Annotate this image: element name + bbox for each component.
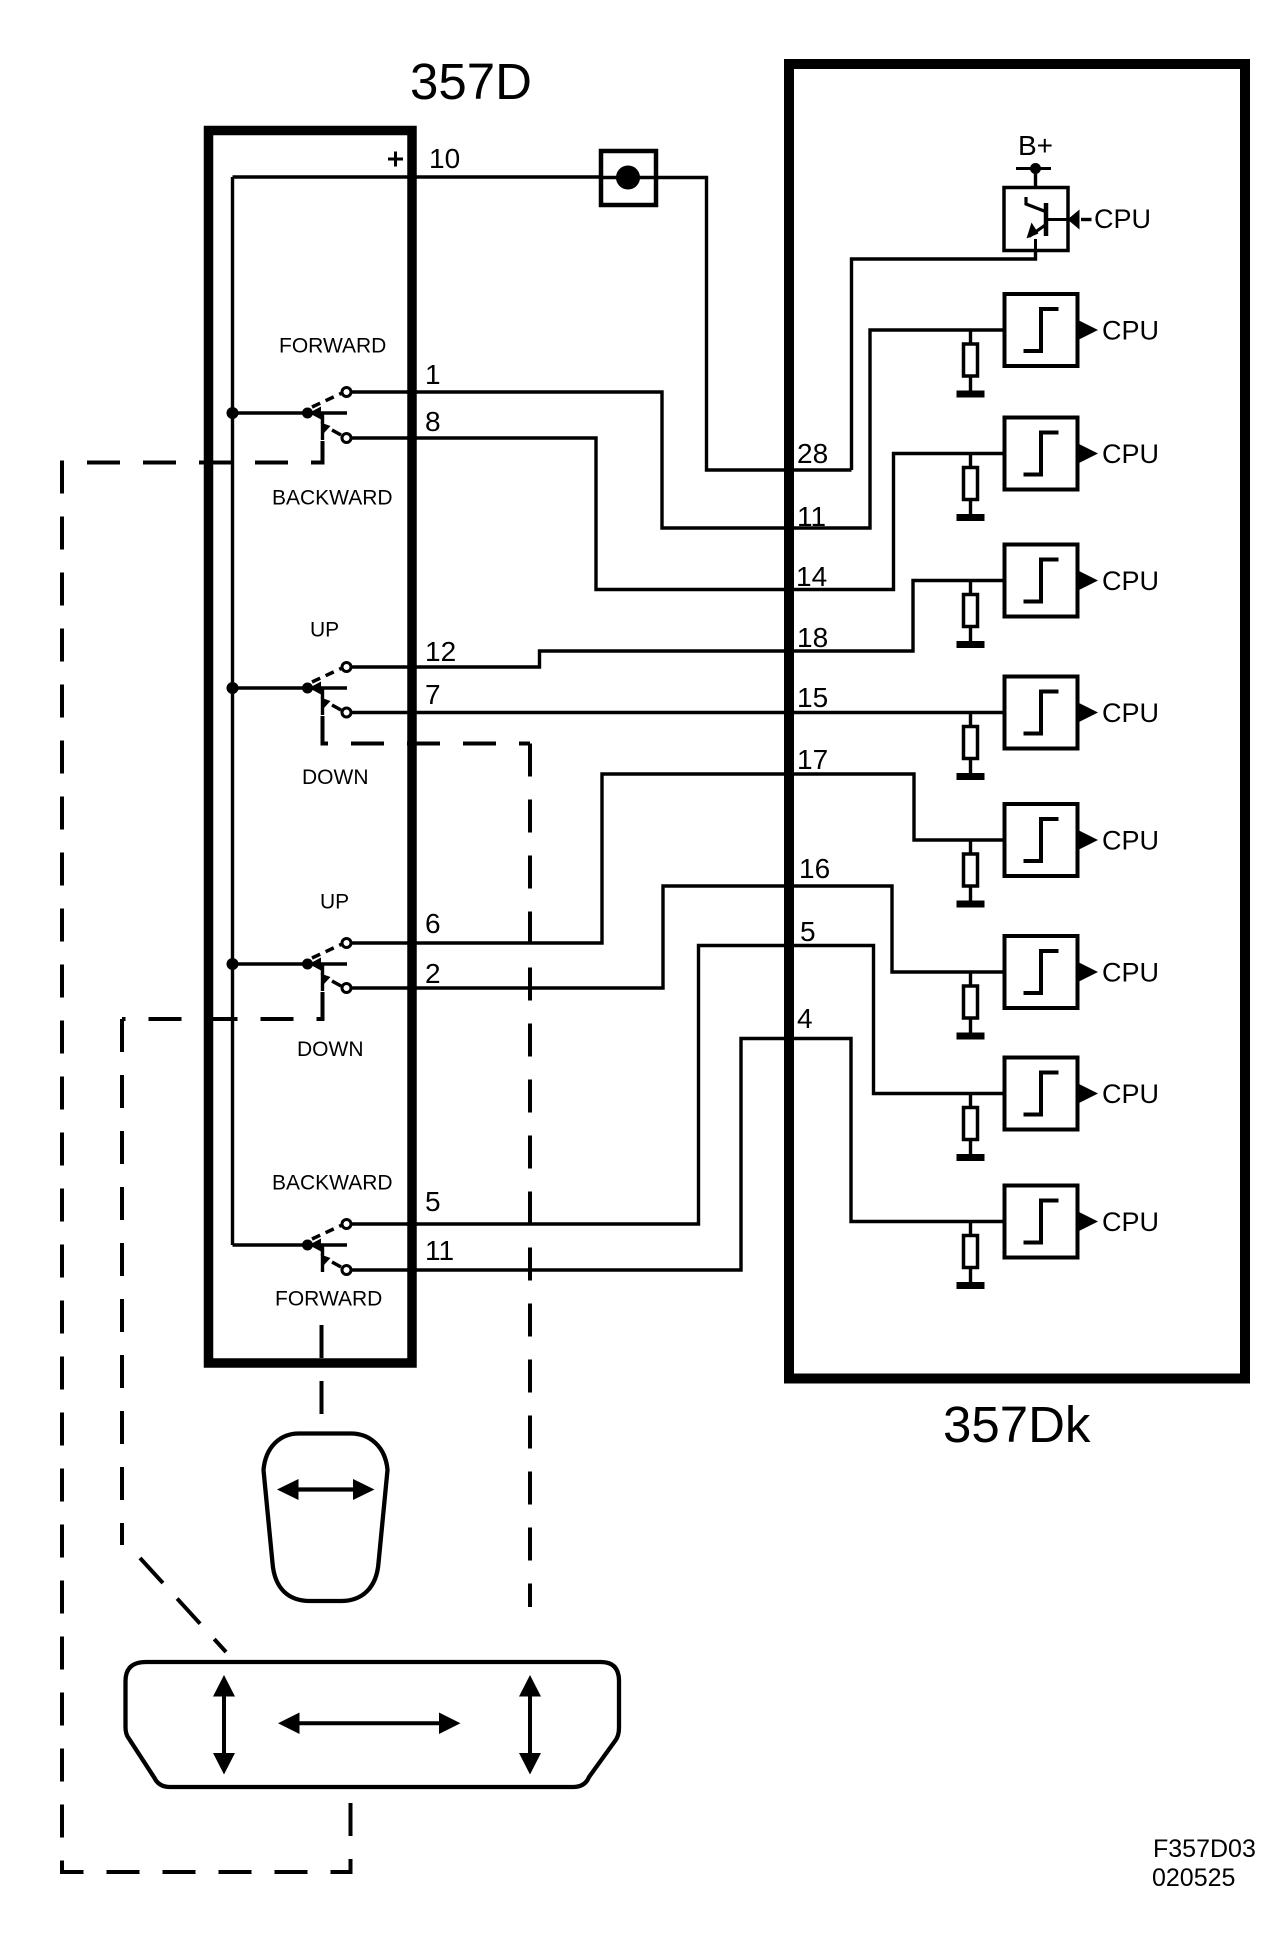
linkage switch S3 to seat front lift (dashed) <box>122 992 323 1019</box>
svg-text:CPU: CPU <box>1102 1207 1159 1237</box>
schmitt trigger U5 box <box>1005 804 1078 876</box>
switch S3 lower contact <box>342 984 351 993</box>
svg-text:17: 17 <box>797 744 828 775</box>
switch S4 lower contact <box>342 1266 351 1275</box>
CPU output arrow U4 <box>1079 703 1098 722</box>
wire switch S2 pole feed <box>233 686 308 689</box>
switch S2 lower contact <box>342 708 351 717</box>
CPU output arrow U6 <box>1079 963 1098 982</box>
svg-text:CPU: CPU <box>1102 826 1159 856</box>
schmitt trigger U4 box <box>1005 677 1078 749</box>
switch S1 upper throw (dashed) <box>312 394 341 408</box>
svg-text:10: 10 <box>429 143 460 174</box>
linkage switch S4 to backrest knob (dashed) <box>320 1325 324 1416</box>
switch S1 pole <box>302 408 313 419</box>
CPU input arrow to transistor base <box>1068 210 1092 230</box>
svg-text:FORWARD: FORWARD <box>279 335 386 358</box>
switch S3 pole <box>302 959 313 970</box>
ground bar R8 <box>957 1282 985 1289</box>
switch S2 upper contact <box>342 663 351 672</box>
svg-text:11: 11 <box>425 1235 454 1266</box>
svg-text:FORWARD: FORWARD <box>275 1288 382 1311</box>
CPU output arrow U1 <box>1079 321 1098 340</box>
wire switch S4 pole feed <box>233 1243 308 1246</box>
switch S4 lower throw (dashed) <box>321 1255 342 1268</box>
ground bar R6 <box>957 1033 985 1040</box>
wire pin 5 to pin 5 to schmitt U7 <box>351 946 1005 1225</box>
schmitt trigger U2 box <box>1005 418 1078 490</box>
seat rear lift up-down arrow <box>519 1675 541 1775</box>
svg-text:CPU: CPU <box>1094 204 1151 234</box>
wire pin 1 to pin 11 to schmitt U1 <box>351 330 1005 528</box>
svg-text:4: 4 <box>797 1003 813 1034</box>
connector splice (square with dot) <box>601 151 656 205</box>
resistor R3 (pull-down) <box>964 581 978 642</box>
node switch S3 junction <box>227 958 239 970</box>
svg-text:18: 18 <box>797 622 828 653</box>
svg-text:5: 5 <box>800 916 816 947</box>
svg-text:DOWN: DOWN <box>297 1038 364 1061</box>
wire pin 7 to pin 15 to schmitt U4 <box>351 711 1005 714</box>
CPU output arrow U3 <box>1079 571 1098 590</box>
wire pin 6 to pin 17 to schmitt U5 <box>351 774 1005 943</box>
svg-text:F357D03: F357D03 <box>1153 1835 1256 1863</box>
switch S4 upper throw (dashed) <box>312 1226 341 1240</box>
schmitt trigger U3 step symbol <box>1024 560 1059 602</box>
wire pin 11 to pin 4 to schmitt U8 <box>351 1039 1005 1271</box>
svg-text:CPU: CPU <box>1102 958 1159 988</box>
svg-text:DOWN: DOWN <box>302 766 369 789</box>
CPU output arrow U8 <box>1079 1212 1098 1231</box>
wire pin 12 to pin 18 to schmitt U3 <box>351 581 1005 668</box>
ground bar R3 <box>957 641 985 648</box>
schmitt trigger U2 step symbol <box>1024 433 1059 475</box>
switch S4 upper contact <box>342 1220 351 1229</box>
wire internal supply bus in 357D <box>231 177 234 1245</box>
seat slide left-right arrow <box>278 1713 461 1735</box>
svg-text:5: 5 <box>425 1186 441 1217</box>
svg-text:B+: B+ <box>1018 130 1053 161</box>
wire pin 10 to connector <box>233 175 602 178</box>
switch S2 lower throw (dashed) <box>321 698 342 711</box>
resistor R2 (pull-down) <box>964 454 978 515</box>
schmitt trigger U1 step symbol <box>1024 309 1059 351</box>
wire pin 8 to pin 14 to schmitt U2 <box>351 438 1005 590</box>
component box 357D (switch unit) <box>209 131 413 1364</box>
resistor R4 (pull-down) <box>964 713 978 774</box>
svg-text:UP: UP <box>310 619 339 642</box>
wire pin 28 to transistor emitter <box>852 251 1036 471</box>
svg-text:357Dk: 357Dk <box>943 1396 1091 1453</box>
wire B+ to transistor collector <box>1034 169 1037 188</box>
schmitt trigger U7 step symbol <box>1024 1073 1059 1115</box>
component box 357Dk (control unit) <box>789 64 1245 1379</box>
svg-text:2: 2 <box>425 958 441 989</box>
resistor R5 (pull-down) <box>964 840 978 901</box>
schmitt trigger U7 box <box>1005 1058 1078 1130</box>
schmitt trigger U8 box <box>1005 1186 1078 1258</box>
svg-text:12: 12 <box>425 636 456 667</box>
wire switch S3 pole feed <box>233 962 308 965</box>
switch S4 lever tick <box>321 1245 324 1272</box>
CPU output arrow U7 <box>1079 1084 1098 1103</box>
seat adjuster outline <box>126 1662 620 1787</box>
switch S1 lever tick <box>321 413 324 440</box>
schmitt trigger U8 step symbol <box>1024 1201 1059 1243</box>
svg-text:CPU: CPU <box>1102 316 1159 346</box>
svg-text:BACKWARD: BACKWARD <box>272 1172 393 1195</box>
plus polarity mark inside 357D <box>388 152 403 167</box>
B+ terminal <box>1016 163 1051 174</box>
wire connector to pin 28 of 357Dk <box>656 178 852 471</box>
svg-text:CPU: CPU <box>1102 1079 1159 1109</box>
svg-text:7: 7 <box>425 679 441 710</box>
backrest knob left-right arrow <box>277 1479 375 1500</box>
wire pin 2 to pin 16 to schmitt U6 <box>351 886 1005 988</box>
transistor Q1 (output driver) <box>1004 188 1068 251</box>
schmitt trigger U6 box <box>1005 936 1078 1008</box>
svg-text:CPU: CPU <box>1102 566 1159 596</box>
svg-text:UP: UP <box>320 891 349 914</box>
ground bar R2 <box>957 514 985 521</box>
switch S3 upper contact <box>342 939 351 948</box>
svg-text:28: 28 <box>797 438 828 469</box>
schmitt trigger U4 step symbol <box>1024 692 1059 734</box>
schmitt trigger U1 box <box>1005 294 1078 366</box>
svg-text:CPU: CPU <box>1102 698 1159 728</box>
resistor R1 (pull-down) <box>964 330 978 391</box>
switch S4 pole <box>302 1240 313 1251</box>
switch S4 actuator arrow <box>309 1239 347 1252</box>
ground bar R4 <box>957 773 985 780</box>
linkage switch S2 to seat rear lift (dashed) <box>323 716 531 744</box>
resistor R7 (pull-down) <box>964 1094 978 1155</box>
switch S2 actuator arrow <box>309 682 347 695</box>
svg-text:16: 16 <box>799 853 830 884</box>
backrest adjuster knob outline <box>264 1434 388 1602</box>
svg-text:8: 8 <box>425 406 441 437</box>
svg-text:020525: 020525 <box>1152 1864 1235 1892</box>
switch S2 lever tick <box>321 688 324 715</box>
seat front lift up-down arrow <box>213 1675 235 1775</box>
ground bar R1 <box>957 391 985 398</box>
node switch S2 junction <box>227 682 239 694</box>
switch S3 actuator arrow <box>309 958 347 971</box>
CPU output arrow U2 <box>1079 444 1098 463</box>
svg-text:6: 6 <box>425 908 441 939</box>
schmitt trigger U3 box <box>1005 545 1078 617</box>
svg-text:CPU: CPU <box>1102 439 1159 469</box>
schmitt trigger U5 step symbol <box>1024 819 1059 861</box>
linkage switch S1 to seat slide (dashed) <box>62 441 351 1872</box>
wire switch S1 pole feed <box>233 411 308 414</box>
ground bar R5 <box>957 901 985 908</box>
switch S3 lever tick <box>321 964 324 991</box>
switch S1 lower throw (dashed) <box>321 423 342 436</box>
switch S1 upper contact <box>342 388 351 397</box>
resistor R6 (pull-down) <box>964 972 978 1033</box>
switch S2 pole <box>302 683 313 694</box>
svg-text:BACKWARD: BACKWARD <box>272 487 393 510</box>
switch S3 lower throw (dashed) <box>321 974 342 987</box>
svg-text:1: 1 <box>425 359 441 390</box>
schmitt trigger U6 step symbol <box>1024 951 1059 993</box>
svg-text:14: 14 <box>796 561 827 592</box>
node switch S1 junction <box>227 407 239 419</box>
switch S2 upper throw (dashed) <box>312 669 341 683</box>
resistor R8 (pull-down) <box>964 1222 978 1283</box>
switch S3 upper throw (dashed) <box>312 945 341 959</box>
ground bar R7 <box>957 1154 985 1161</box>
svg-text:357D: 357D <box>410 53 532 110</box>
switch S1 lower contact <box>342 434 351 443</box>
svg-text:15: 15 <box>797 682 828 713</box>
CPU output arrow U5 <box>1079 831 1098 850</box>
switch S1 actuator arrow <box>309 407 347 420</box>
